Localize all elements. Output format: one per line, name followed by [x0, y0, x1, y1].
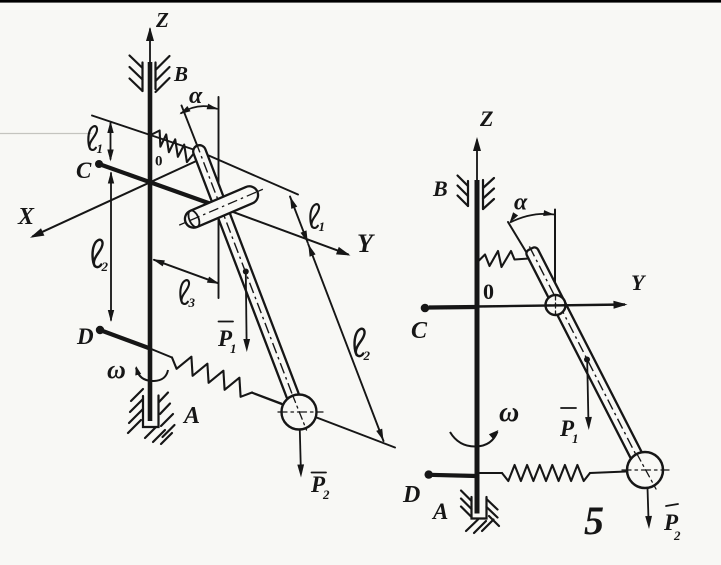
point D (left): [96, 326, 104, 334]
weight P2 arrow (left): [300, 430, 301, 468]
rod (left diagram, tilted cylinder): [190, 140, 301, 404]
svg-text:2: 2: [673, 528, 681, 543]
axis Z (left diagram): [149, 29, 151, 64]
vertical reference line for angle (right): [554, 210, 556, 306]
label P2 (right): [666, 504, 678, 506]
svg-text:D: D: [402, 482, 420, 508]
svg-text:X: X: [17, 204, 35, 230]
rod centerline extension to arc (left): [182, 106, 200, 152]
point C (left): [95, 160, 103, 168]
svg-text:ω: ω: [499, 397, 519, 428]
angle alpha arc (right): [510, 214, 554, 223]
omega rotation arrow (right): [450, 432, 498, 447]
lower spring (right): [479, 472, 502, 474]
axis X: [33, 157, 205, 236]
svg-text:2: 2: [322, 487, 330, 502]
rod (right diagram): [524, 244, 651, 477]
rod extension line (right): [508, 222, 530, 258]
angle alpha arc (left): [181, 106, 218, 113]
vertical reference line for angle (left): [218, 97, 220, 298]
svg-text:C: C: [411, 318, 428, 344]
svg-text:C: C: [76, 158, 92, 183]
weight P2 arrow (right): [648, 488, 649, 519]
dimension l3: [154, 260, 218, 283]
omega rotation arrow (left): [136, 368, 168, 382]
pivot circle at O on rod (right): [546, 295, 566, 315]
pivot crosshair dashes: [546, 304, 565, 306]
svg-text:B: B: [173, 62, 188, 86]
shaft AB (right): [475, 180, 480, 514]
bearing A (right) pocket: [472, 497, 487, 519]
point D (right): [425, 470, 433, 478]
svg-text:A: A: [431, 499, 448, 524]
svg-text:1: 1: [319, 219, 326, 234]
svg-text:0: 0: [483, 279, 494, 304]
svg-text:1: 1: [230, 341, 237, 356]
bearing A (right) hatching: [461, 491, 472, 502]
bottom boundary line through ball (left): [252, 393, 395, 448]
top boundary line through rod cap: [92, 116, 298, 195]
bearing A (left) pocket: [143, 396, 159, 428]
bar D (right): [429, 475, 477, 476]
label P2 (left): [312, 472, 327, 474]
bar D (left): [100, 330, 150, 349]
dimension l2 (left): [110, 173, 112, 320]
svg-text:D: D: [76, 324, 94, 349]
svg-text:α: α: [189, 83, 203, 109]
ball weight (left): [282, 395, 317, 430]
weight P1 arrow (left): [243, 269, 249, 275]
svg-text:1: 1: [97, 141, 104, 156]
shaft AB (left): [148, 62, 153, 421]
dimension l1 (left): [110, 123, 112, 159]
svg-text:Y: Y: [357, 229, 375, 258]
top spring (right): [479, 251, 529, 267]
svg-text:0: 0: [155, 154, 163, 170]
label P1 (right): [561, 407, 576, 409]
bar C-O-collar along Y (thick): [99, 164, 221, 208]
svg-text:3: 3: [188, 295, 196, 310]
svg-text:2: 2: [363, 348, 371, 363]
dimension line l1/l2 (right side of left diagram): [290, 197, 308, 243]
svg-text:2: 2: [101, 259, 109, 274]
axis Y (right): [429, 305, 477, 310]
bearing B (right) hatching: [467, 181, 469, 206]
svg-text:1: 1: [572, 431, 579, 446]
axis Z (right diagram): [476, 140, 478, 182]
bearing B (left) hatching: [141, 63, 143, 92]
upper spring (left): [152, 131, 194, 163]
svg-text:Z: Z: [479, 106, 493, 131]
bearing A (left) hatching: [131, 389, 143, 401]
ball weight (right): [627, 452, 663, 488]
svg-text:ω: ω: [107, 355, 126, 384]
axis Y (left, thin part): [221, 208, 348, 255]
svg-text:Z: Z: [155, 8, 169, 32]
svg-text:A: A: [182, 403, 200, 429]
top scan border: [0, 0, 721, 3]
svg-text:α: α: [514, 190, 528, 216]
collar cylinder on rod (left): [176, 181, 267, 233]
faint scan artifact line: [0, 133, 91, 135]
svg-text:5: 5: [584, 498, 604, 543]
lower spring (left): from D-line to ball: [150, 349, 172, 358]
point C (right): [421, 304, 430, 313]
label P1 (left): [219, 321, 234, 323]
svg-text:B: B: [432, 176, 448, 201]
weight P1 arrow (right): [584, 357, 590, 363]
